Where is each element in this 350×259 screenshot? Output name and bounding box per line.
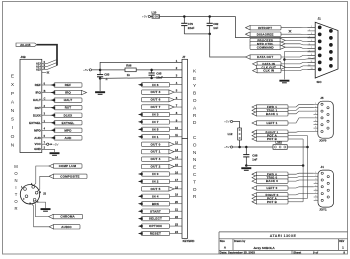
net flag RIGHT 1 to J5 xyxy=(252,130,288,134)
svg-text:R: R xyxy=(193,113,197,119)
node C95 bottom xyxy=(150,77,153,80)
net flag FWD 1 to J5 xyxy=(252,105,288,109)
svg-text:J7: J7 xyxy=(182,55,186,59)
ground below C93 xyxy=(95,92,105,94)
svg-text:D1XX: D1XX xyxy=(33,113,41,117)
power +5V above L12 xyxy=(224,120,232,124)
node SIO ground xyxy=(283,58,286,61)
J4 pin contacts xyxy=(321,172,329,201)
capacitor C79 xyxy=(181,17,187,34)
svg-text:IN 0: IN 0 xyxy=(152,172,158,176)
svg-text:Jerzy SOBOLA: Jerzy SOBOLA xyxy=(253,246,275,250)
svg-text:GND: GND xyxy=(34,147,42,151)
net flag COMP LUM xyxy=(49,164,82,168)
svg-text:9: 9 xyxy=(311,54,312,56)
svg-text:OUT 2: OUT 2 xyxy=(151,165,161,169)
wire +5V to L12 xyxy=(233,122,240,129)
resistor R96 xyxy=(125,68,136,72)
net flag CHROMA xyxy=(49,214,83,218)
pin 5 of J2 xyxy=(33,198,36,201)
wire C82 node down to DATA OUT net xyxy=(210,34,250,57)
svg-text:P: P xyxy=(11,91,14,97)
svg-text:IN 4: IN 4 xyxy=(152,194,158,198)
net flag CLK IN to J1 xyxy=(253,68,282,72)
pin 24 of J7 net flag RESET xyxy=(170,233,183,235)
no-connect mark near DISAGREE xyxy=(289,30,292,33)
svg-text:OUT 1: OUT 1 xyxy=(151,150,161,154)
SIO pin stubs xyxy=(308,27,316,69)
svg-text:COMP LUM: COMP LUM xyxy=(59,164,77,168)
net flag DATA OUT to J1 xyxy=(246,55,282,59)
net flag TRIG 0 to J4 xyxy=(252,175,288,179)
svg-text:B: B xyxy=(44,90,46,93)
svg-text:J4: J4 xyxy=(321,165,325,169)
svg-text:16: 16 xyxy=(175,170,178,174)
power +5V joystick rail xyxy=(224,145,232,149)
svg-text:SELECT: SELECT xyxy=(149,217,162,221)
svg-text:O: O xyxy=(193,98,197,104)
svg-text:6: 6 xyxy=(315,120,316,122)
svg-text:+5V: +5V xyxy=(224,120,229,124)
svg-text:IRQ: IRQ xyxy=(35,91,41,95)
svg-text:EXTSEL: EXTSEL xyxy=(62,121,75,125)
wire L10 to SIO drop xyxy=(160,16,236,18)
pin 11 of J7 net flag IN 1 xyxy=(170,136,183,138)
svg-text:OUT 5: OUT 5 xyxy=(151,187,161,191)
svg-text:8: 8 xyxy=(315,127,316,129)
pin 22 of J7 net flag SELECT xyxy=(170,218,183,220)
net flag COMPOSITE xyxy=(49,174,87,178)
node keyboard supply xyxy=(99,69,102,72)
svg-text:T: T xyxy=(15,192,18,197)
J5 pin numbers xyxy=(315,103,316,132)
svg-text:17: 17 xyxy=(175,178,178,182)
svg-text:7: 7 xyxy=(315,192,316,194)
svg-text:E: E xyxy=(193,76,196,82)
svg-text:MPD: MPD xyxy=(34,128,42,132)
wire POT A J4 to feed xyxy=(288,197,308,199)
svg-text:D: D xyxy=(193,120,197,126)
svg-text:COMPOSITE: COMPOSITE xyxy=(60,174,79,178)
svg-text:COMMAND: COMMAND xyxy=(257,45,274,49)
net flag POT A to J4 xyxy=(252,196,288,200)
connector J5 DB9 joystick xyxy=(318,101,334,138)
svg-text:VCC: VCC xyxy=(34,142,41,146)
wire J2 pin5 to CHROMA xyxy=(33,201,53,216)
node C79 top xyxy=(183,15,186,18)
wire LEFT 1 xyxy=(288,118,314,123)
svg-text:C93: C93 xyxy=(104,72,110,76)
wire SIO second ground pin xyxy=(284,58,315,60)
svg-text:SIO: SIO xyxy=(317,80,323,84)
svg-text:IN 5: IN 5 xyxy=(152,127,158,131)
svg-text:INTRUPT: INTRUPT xyxy=(258,26,272,30)
svg-text:22: 22 xyxy=(175,215,178,219)
connector J4B (ECI expansion) xyxy=(20,59,42,152)
pin 6 of J7 net flag OUT 6 xyxy=(170,99,183,101)
svg-text:C: C xyxy=(193,172,197,178)
svg-text:4: 4 xyxy=(315,182,316,184)
svg-text:1nF: 1nF xyxy=(252,158,257,162)
svg-text:M: M xyxy=(14,164,18,169)
node C82 top xyxy=(208,15,211,18)
svg-text:IRQ: IRQ xyxy=(65,91,71,95)
SIO pin contacts left column xyxy=(318,26,322,72)
svg-text:Sheet: Sheet xyxy=(293,250,301,254)
svg-text:20: 20 xyxy=(175,200,178,204)
svg-text:5: 5 xyxy=(315,185,316,187)
node L12 rail xyxy=(238,146,241,149)
SIO ground bus xyxy=(284,51,315,79)
svg-text:11: 11 xyxy=(311,61,313,63)
svg-text:6: 6 xyxy=(315,189,316,191)
svg-text:EXTSEL: EXTSEL xyxy=(29,121,41,125)
net flag DATA IN to J1 xyxy=(253,62,282,66)
connector J7 keyboard xyxy=(182,59,188,138)
pin 20 of J7 net flag BRK xyxy=(170,203,183,205)
svg-text:3: 3 xyxy=(315,179,316,181)
svg-text:1: 1 xyxy=(315,103,316,105)
svg-text:1k: 1k xyxy=(127,73,131,77)
svg-text:O: O xyxy=(193,187,197,193)
svg-text:CHROMA: CHROMA xyxy=(60,215,75,219)
svg-text:IN 1: IN 1 xyxy=(152,135,158,139)
net flag LEFT 1 to J5 xyxy=(252,121,288,125)
svg-text:I: I xyxy=(15,185,16,190)
svg-text:Drawn by: Drawn by xyxy=(234,240,246,243)
label MONITOR (vertical) xyxy=(14,164,18,211)
net flag POT B to J5 xyxy=(252,137,288,141)
net flag COMMAND to J1 xyxy=(250,45,285,49)
net flag PROCEED to J1 xyxy=(250,38,285,42)
ground at J1 xyxy=(279,81,289,83)
wire C98 node to joystick J4 rail xyxy=(246,165,303,167)
svg-text:13: 13 xyxy=(310,68,312,70)
svg-text:14: 14 xyxy=(175,156,178,160)
pin 17 of J7 net flag IN 2 xyxy=(170,180,183,182)
svg-text:22uF: 22uF xyxy=(188,26,195,30)
svg-text:POT B: POT B xyxy=(267,200,277,204)
svg-text:OUT 7: OUT 7 xyxy=(151,105,161,109)
svg-text:OUT 3: OUT 3 xyxy=(151,90,161,94)
svg-text:RST: RST xyxy=(35,106,41,110)
svg-text:+5V: +5V xyxy=(224,145,229,149)
svg-text:12: 12 xyxy=(175,141,178,145)
svg-text:J4B: J4B xyxy=(21,55,26,59)
svg-text:15: 15 xyxy=(175,163,178,167)
svg-text:+5V: +5V xyxy=(53,142,58,146)
svg-text:B: B xyxy=(193,91,196,97)
wire +5V to R96 xyxy=(100,69,125,71)
svg-text:D1XX: D1XX xyxy=(64,113,73,117)
svg-text:OUT 6: OUT 6 xyxy=(151,98,161,102)
svg-text:9: 9 xyxy=(315,130,316,132)
label KEYBOARD (vertical) xyxy=(193,68,197,126)
pin 12 of J7 net flag OUT 0 xyxy=(170,143,183,145)
wire POT B J4 to feed xyxy=(288,201,303,203)
svg-text:6: 6 xyxy=(309,44,310,46)
svg-text:L10: L10 xyxy=(152,10,157,14)
pin 16 of J7 net flag IN 0 xyxy=(170,173,183,175)
svg-text:LEFT 0: LEFT 0 xyxy=(267,186,278,190)
capacitor C98 xyxy=(243,147,249,166)
connector J1 SIO xyxy=(315,22,338,78)
svg-text:O: O xyxy=(11,134,15,140)
svg-text:J5: J5 xyxy=(320,96,324,100)
ground at J4B GND pin xyxy=(50,153,60,155)
svg-text:N: N xyxy=(11,142,15,148)
pin 18 of J7 net flag OUT 5 xyxy=(170,188,183,190)
svg-text:A15: A15 xyxy=(36,68,41,72)
pin 13 of J7 net flag OUT 1 xyxy=(170,151,183,153)
ground at J2 shield xyxy=(41,209,51,211)
svg-text:BACK 0: BACK 0 xyxy=(266,179,278,183)
power +5V for keyboard xyxy=(83,68,91,72)
wire POT B J5 to feed xyxy=(288,138,303,140)
net flag RIGHT 0 to J4 xyxy=(252,193,288,197)
wire +5V rail to L102 xyxy=(233,146,273,148)
pin 7 of J7 net flag OUT 7 xyxy=(170,106,183,108)
ground below C98 xyxy=(241,168,251,170)
net flag POT A to J5 xyxy=(252,133,288,137)
pin 10 of J7 net flag IN 5 xyxy=(170,128,183,130)
svg-text:1: 1 xyxy=(311,26,312,28)
pin 14 of J7 net flag OUT 4 xyxy=(170,158,183,160)
SIO pin contacts right column xyxy=(329,29,333,68)
net flag INTRUPT to J1 xyxy=(246,26,282,30)
svg-text:O: O xyxy=(193,142,197,148)
pin 4 of J7 net flag IN 6 xyxy=(170,84,183,86)
svg-text:19: 19 xyxy=(175,193,178,197)
svg-text:2: 2 xyxy=(315,106,316,108)
svg-text:5: 5 xyxy=(315,117,316,119)
net flag BACK 1 to J5 xyxy=(252,112,288,116)
net flag TRIG 1 to J5 xyxy=(252,108,288,112)
wire up to keyboard pin 1 xyxy=(100,62,182,69)
svg-text:IN 6: IN 6 xyxy=(152,83,158,87)
svg-text:E: E xyxy=(11,74,14,80)
svg-text:3: 3 xyxy=(315,110,316,112)
svg-text:12: 12 xyxy=(308,65,310,67)
wire C93 to ground xyxy=(99,78,101,91)
inductor L102 xyxy=(273,145,287,150)
svg-text:RST: RST xyxy=(65,106,72,110)
net flag CLK OUT to J1 xyxy=(257,65,286,69)
svg-text:Size: Size xyxy=(220,240,226,243)
no-connect pin of J4B xyxy=(42,72,47,74)
pin 8 of J7 net flag IN 3 xyxy=(170,113,183,115)
wire J2 pin3 to COMPOSITE xyxy=(37,176,53,191)
svg-text:BACK 1: BACK 1 xyxy=(266,112,278,116)
svg-text:N: N xyxy=(193,157,197,163)
wire BACK 0 xyxy=(288,180,314,181)
wire FWD 1 xyxy=(288,104,314,107)
svg-text:13: 13 xyxy=(175,148,178,152)
pin 21 of J7 net flag START xyxy=(170,210,183,212)
wire LEFT 0 xyxy=(288,187,314,188)
svg-text:8: 8 xyxy=(315,196,316,198)
wire J2 pin4 to COMP LUM xyxy=(33,166,53,186)
svg-text:1: 1 xyxy=(315,172,316,174)
svg-text:N: N xyxy=(11,108,15,114)
svg-text:OUT 4: OUT 4 xyxy=(151,157,161,161)
label CONNECTOR (vertical) xyxy=(193,135,197,200)
svg-text:DISAGREE: DISAGREE xyxy=(257,32,274,36)
svg-text:R: R xyxy=(14,206,17,211)
wire POT A J5 to feed xyxy=(288,135,308,137)
inductor L12 xyxy=(238,128,242,140)
pin 4 of J2 xyxy=(32,186,35,189)
wire TRIG 0 xyxy=(288,177,314,178)
wire L12 to rail xyxy=(239,140,241,147)
svg-text:IN 7: IN 7 xyxy=(152,120,158,124)
svg-text:OUT 0: OUT 0 xyxy=(151,142,161,146)
power net +5V (top rail) xyxy=(142,15,150,19)
svg-text:CLK IN: CLK IN xyxy=(263,69,274,73)
svg-text:3: 3 xyxy=(311,33,312,35)
pin 9 of J7 net flag IN 7 xyxy=(170,121,183,123)
bus wire A0-A15 xyxy=(37,45,57,66)
svg-text:N: N xyxy=(14,178,17,183)
svg-text:HALT: HALT xyxy=(64,98,73,102)
svg-text:J1: J1 xyxy=(318,17,322,21)
svg-text:Date: September 25, 2003: Date: September 25, 2003 xyxy=(220,250,255,254)
wire +5V rail down to SIO pin xyxy=(236,17,316,38)
svg-text:2: 2 xyxy=(315,175,316,177)
svg-text:LEFT 1: LEFT 1 xyxy=(267,121,278,125)
svg-text:1nF: 1nF xyxy=(213,26,218,30)
wire bus to A14 xyxy=(47,63,57,67)
wire +5V node xyxy=(92,69,101,71)
svg-text:HALT: HALT xyxy=(33,98,41,102)
svg-text:21: 21 xyxy=(175,208,178,212)
svg-text:POT B: POT B xyxy=(267,137,277,141)
svg-text:C: C xyxy=(193,135,197,141)
node C98 top xyxy=(245,146,248,149)
svg-text:23: 23 xyxy=(175,222,178,226)
svg-text:START: START xyxy=(150,209,161,213)
title block xyxy=(219,232,348,254)
svg-text:R96: R96 xyxy=(126,64,132,68)
svg-text:+5V: +5V xyxy=(83,68,88,72)
svg-text:AUD: AUD xyxy=(64,136,72,140)
wire bus to A13 xyxy=(47,60,57,64)
svg-text:18: 18 xyxy=(175,185,178,189)
pin 5 of J7 net flag OUT 3 xyxy=(170,91,183,93)
svg-text:REV: REV xyxy=(339,240,344,243)
svg-text:REF: REF xyxy=(35,83,41,87)
svg-text:S: S xyxy=(11,117,14,123)
wire J2 pin2 to AUDIO xyxy=(31,203,53,227)
wire FWD 0 xyxy=(288,173,314,174)
svg-text:N: N xyxy=(193,150,197,156)
connector J2 DIN-5 monitor jack xyxy=(20,185,39,204)
wire ground feed vertical xyxy=(302,139,304,202)
svg-text:E: E xyxy=(193,165,196,171)
J4 pin stubs xyxy=(314,173,318,200)
node C95 top xyxy=(150,69,153,72)
wire J2 shield to ground xyxy=(36,202,46,208)
wire L102 to pot feed xyxy=(287,146,307,148)
capacitor C82 xyxy=(207,17,213,34)
net flag MTR CTRL to J1 xyxy=(250,42,285,46)
node joystick J4 rail xyxy=(302,164,305,167)
svg-text:2: 2 xyxy=(309,30,310,32)
svg-text:AUDIO: AUDIO xyxy=(61,225,72,229)
wire BACK 1 xyxy=(288,111,314,114)
net flag FWD 0 to J4 xyxy=(252,172,288,176)
net flag AUDIO xyxy=(49,225,80,229)
svg-text:KEYBRD: KEYBRD xyxy=(183,239,195,243)
svg-text:OPTION: OPTION xyxy=(149,224,162,228)
J5 pin contacts xyxy=(321,103,329,132)
pin 15 of J7 net flag OUT 2 xyxy=(170,166,183,168)
wire RIGHT 1 xyxy=(288,131,314,134)
svg-text:9 of: 9 of xyxy=(313,250,318,254)
svg-text:T: T xyxy=(193,179,196,185)
pin 1 of J2 xyxy=(24,188,27,191)
label EXPANSION (vertical) xyxy=(11,74,15,149)
svg-text:I: I xyxy=(12,125,13,131)
svg-text:JOY1: JOY1 xyxy=(319,208,327,212)
svg-text:10: 10 xyxy=(175,126,178,130)
svg-text:+5V: +5V xyxy=(142,15,147,19)
net flag BACK 0 to J4 xyxy=(252,179,288,183)
node C98 bottom xyxy=(245,164,248,167)
wire keyboard pin 3 rail xyxy=(100,77,182,78)
pin 2 of J2 xyxy=(25,195,28,198)
bus label A0-A15 xyxy=(16,43,37,46)
pin 19 of J7 net flag IN 4 xyxy=(170,195,183,197)
svg-text:9: 9 xyxy=(315,199,316,201)
J4 pin numbers xyxy=(315,172,316,201)
SIO pin numbers xyxy=(308,26,312,70)
J2 shield notch xyxy=(29,203,31,205)
svg-text:JOY0: JOY0 xyxy=(319,139,327,143)
svg-text:IN 3: IN 3 xyxy=(152,113,158,117)
svg-text:5: 5 xyxy=(311,40,312,42)
wire +5V to L10 xyxy=(150,16,152,18)
svg-text:7: 7 xyxy=(315,123,316,125)
inductor L10 xyxy=(152,15,160,18)
net flag DISAGREE to J1 xyxy=(246,32,282,36)
node C93 bottom xyxy=(99,77,102,80)
svg-text:IN 2: IN 2 xyxy=(152,179,158,183)
wire RIGHT 0 xyxy=(288,194,314,195)
connector J4 DB9 joystick xyxy=(318,170,334,207)
svg-text:REF: REF xyxy=(65,83,72,87)
node C82 bottom xyxy=(208,33,211,36)
wire bus to A15 xyxy=(47,66,57,70)
svg-text:AUD: AUD xyxy=(34,136,41,140)
net flag POT B to J4 xyxy=(252,200,288,204)
svg-text:RESET: RESET xyxy=(150,232,161,236)
J5 pin stubs xyxy=(314,104,318,131)
svg-text:4: 4 xyxy=(315,113,316,115)
wire R96 to keyboard pin 2 xyxy=(136,69,182,71)
svg-text:A0-A15: A0-A15 xyxy=(20,43,31,47)
svg-text:BRK: BRK xyxy=(152,202,160,206)
wire pot feed vertical xyxy=(307,136,309,199)
net flag LEFT 0 to J4 xyxy=(252,186,288,190)
svg-text:10nF: 10nF xyxy=(156,76,163,80)
svg-text:C: C xyxy=(44,97,46,100)
power +5V at J4B VCC xyxy=(47,142,59,146)
node pot feed xyxy=(306,146,309,149)
pin 3 of J2 xyxy=(35,191,38,194)
svg-text:ATARI 130XE: ATARI 130XE xyxy=(270,233,297,238)
svg-text:7: 7 xyxy=(311,47,312,49)
